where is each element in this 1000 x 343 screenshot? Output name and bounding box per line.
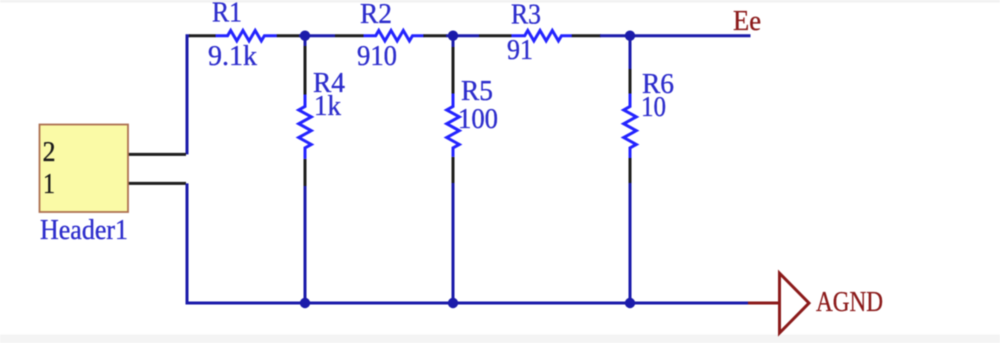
svg-text:R3: R3 bbox=[511, 0, 541, 31]
wire: pin1 horizontal (black pin of Header1 pin 1) bbox=[128, 182, 186, 185]
svg-text:910: 910 bbox=[357, 41, 397, 72]
wire: R6 column black pin top bbox=[629, 69, 632, 94]
wire: black segment left of R3 bbox=[479, 34, 512, 37]
svg-text:Ee: Ee bbox=[733, 6, 761, 37]
top window strip bbox=[0, 0, 1000, 3]
resistor R2 bbox=[364, 31, 425, 41]
wire: R6 column navy stub under dot 3 bbox=[629, 36, 632, 70]
wire: R6 column navy wire to bottom rail bbox=[629, 183, 632, 303]
wire: R5 column black pin bottom bbox=[452, 157, 455, 184]
wire: navy segment from R3 to rail end at Ee bbox=[600, 34, 751, 37]
svg-text:9.1k: 9.1k bbox=[208, 41, 257, 72]
svg-text:Header1: Header1 bbox=[40, 215, 128, 246]
wire: left vertical down to bottom rail bbox=[187, 183, 190, 303]
svg-text:R5: R5 bbox=[461, 76, 493, 107]
wire: black segment right of R1 bbox=[277, 34, 300, 37]
wire: AGND stub (dark red) bbox=[748, 302, 780, 305]
wire: R4 column black pin top bbox=[304, 46, 307, 95]
svg-text:10: 10 bbox=[641, 92, 666, 123]
svg-text:AGND: AGND bbox=[816, 287, 883, 318]
wire: black segment left of R2 bbox=[335, 34, 364, 37]
node junction dot 3 bbox=[625, 31, 635, 41]
node junction dot 6 (bottom R6) bbox=[625, 298, 635, 308]
svg-text:91: 91 bbox=[507, 35, 533, 66]
wire: left vertical from top rail to pin2 bbox=[187, 36, 190, 155]
wire: R5 column navy stub under dot 2 bbox=[452, 36, 455, 48]
wire: R4 column black pin bottom bbox=[304, 159, 307, 187]
wire: R5 column navy wire to bottom rail bbox=[452, 183, 455, 303]
wire: R6 column black pin bottom bbox=[629, 158, 632, 184]
svg-text:R2: R2 bbox=[360, 0, 392, 30]
wire: black segment right of R2 bbox=[423, 34, 447, 37]
resistor R4 bbox=[299, 95, 312, 159]
wire: navy segment through node dot 1 bbox=[299, 34, 335, 37]
node junction dot 4 (bottom R4) bbox=[300, 298, 310, 308]
connector Header1 body bbox=[40, 125, 129, 213]
wire: R5 column black pin top bbox=[452, 47, 455, 94]
svg-text:100: 100 bbox=[458, 104, 498, 135]
node junction dot 5 (bottom R5) bbox=[448, 298, 458, 308]
svg-text:1: 1 bbox=[43, 169, 55, 200]
resistor R1 bbox=[216, 31, 277, 41]
wire: navy segment through node dot 2 bbox=[446, 34, 479, 37]
node junction dot 2 bbox=[448, 31, 458, 41]
wire: black segment right of R3 bbox=[572, 34, 601, 37]
wire: top rail black segment left of R1 bbox=[189, 34, 216, 37]
wire: bottom rail bbox=[188, 302, 748, 305]
svg-text:R1: R1 bbox=[212, 0, 242, 29]
wire: R4 column navy wire to bottom rail bbox=[304, 186, 307, 303]
svg-text:1k: 1k bbox=[314, 91, 341, 122]
resistor R5 bbox=[447, 94, 460, 157]
wire: R4 column navy stub under dot 1 bbox=[304, 36, 307, 47]
bottom window strip bbox=[0, 335, 1000, 343]
wire: pin2 horizontal (black pin of Header1 pin 2) bbox=[128, 153, 186, 156]
node junction dot 1 bbox=[300, 31, 310, 41]
ground AGND power port triangle bbox=[780, 273, 810, 333]
resistor R6 bbox=[624, 94, 637, 159]
resistor R3 bbox=[511, 31, 572, 41]
svg-text:2: 2 bbox=[43, 137, 56, 168]
